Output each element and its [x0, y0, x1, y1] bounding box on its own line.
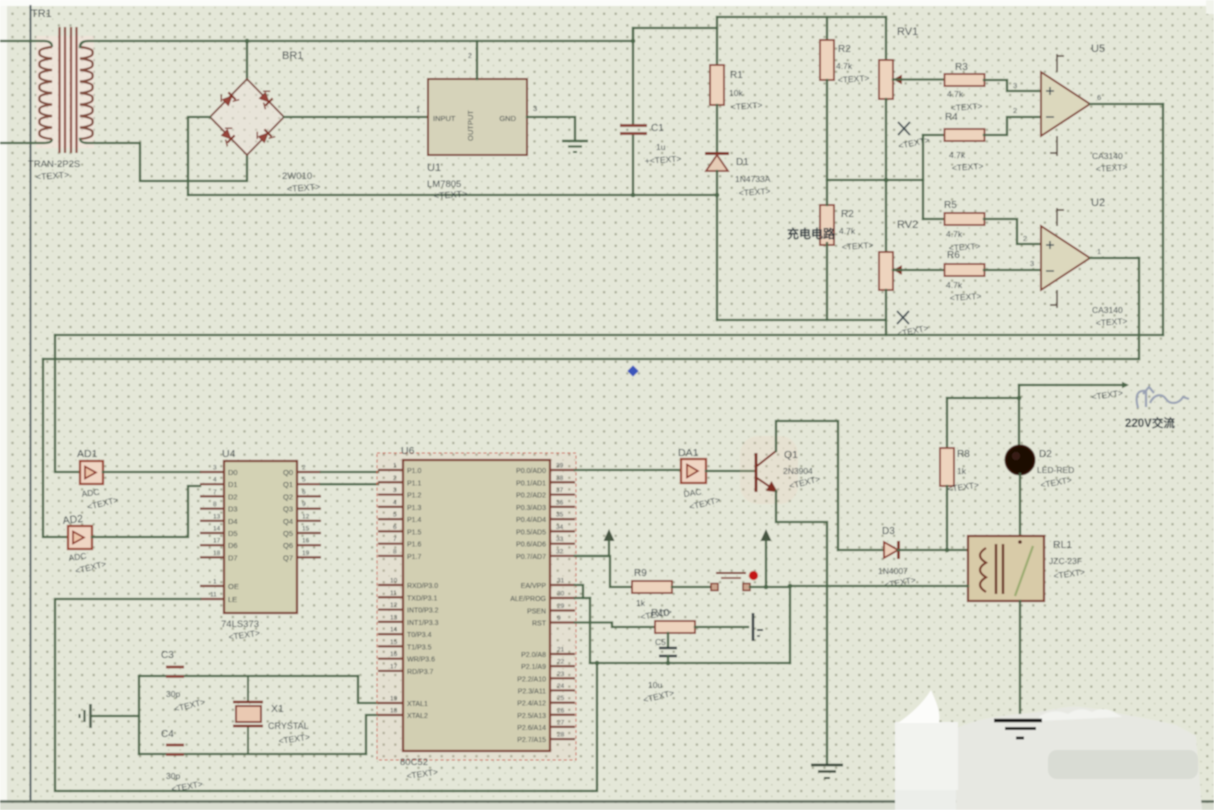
svg-text:R2: R2 — [838, 44, 851, 55]
svg-text:31: 31 — [557, 578, 565, 585]
svg-text:P2.6/A14: P2.6/A14 — [517, 725, 546, 732]
U6 pin 30 ALE/PROG — [550, 597, 575, 599]
wire loop left vertical — [589, 598, 591, 663]
wire — [188, 117, 210, 195]
junction — [1017, 396, 1022, 401]
svg-text:2: 2 — [1013, 106, 1017, 115]
svg-text:P2.2/A10: P2.2/A10 — [517, 676, 546, 683]
U6 pin 22 P2.1/A9 — [550, 665, 575, 667]
wire RST to R10 — [575, 623, 655, 628]
svg-text:T0/P3.4: T0/P3.4 — [407, 632, 432, 639]
U6 pin 5 P1.4 — [378, 518, 403, 520]
wire R8 bottom — [946, 486, 948, 550]
wire bus1 to AD1 — [55, 335, 80, 472]
U6 pin 7 P1.6 — [378, 543, 403, 545]
junction — [666, 661, 671, 666]
node relay coil top — [967, 549, 969, 551]
wire RV2 bottom — [885, 290, 887, 335]
op-amp U2 — [1041, 226, 1090, 290]
wire R4 to U5- — [984, 117, 1041, 135]
U6 pin 10 RXD/P3.0 — [378, 584, 403, 586]
svg-text:1: 1 — [1097, 247, 1101, 256]
U6 pin 25 P2.4/A12 — [550, 701, 575, 703]
svg-text:4.7k: 4.7k — [947, 89, 964, 99]
resistor R2 lower — [820, 205, 834, 245]
wire U4 Q0 to U6 P1.0 — [321, 471, 378, 473]
svg-text:21: 21 — [557, 647, 565, 654]
svg-text:R3: R3 — [955, 62, 968, 73]
wire — [838, 549, 884, 551]
svg-text:EA/VPP: EA/VPP — [521, 583, 547, 590]
wire relay to ground — [1019, 601, 1021, 718]
wire R10 right — [695, 626, 748, 628]
svg-text:1: 1 — [213, 579, 217, 586]
svg-text:JZC-23F: JZC-23F — [1049, 556, 1082, 566]
svg-text:C5: C5 — [655, 637, 666, 647]
wire — [826, 180, 828, 205]
ADC buffer AD2 — [68, 526, 92, 549]
wire divider tap — [827, 179, 923, 181]
resistor R5 — [945, 213, 985, 225]
svg-text:18: 18 — [213, 550, 221, 557]
wire U5 output — [1090, 103, 1163, 105]
svg-text:5: 5 — [302, 477, 306, 484]
svg-text:D3: D3 — [228, 505, 238, 514]
wire — [632, 135, 634, 195]
wire U1 gnd pin — [527, 117, 575, 141]
svg-text:10u: 10u — [648, 680, 662, 690]
U6 pin 6 P1.5 — [378, 530, 403, 532]
svg-text:P0.4/AD4: P0.4/AD4 — [516, 517, 546, 524]
wire — [923, 218, 945, 220]
potentiometer RV1 — [879, 60, 893, 99]
U6 pin 28 P2.7/A15 — [550, 738, 575, 740]
svg-text:7: 7 — [393, 536, 397, 543]
svg-text:GND: GND — [499, 114, 516, 123]
svg-text:P2.4/A12: P2.4/A12 — [517, 701, 546, 708]
svg-text:R1: R1 — [730, 70, 743, 81]
svg-text:4.7k: 4.7k — [839, 226, 856, 236]
wire R5 to U2+ — [984, 219, 1041, 244]
wire crystal loop top — [139, 675, 358, 677]
U4 pin D7 — [200, 556, 224, 558]
svg-text:16: 16 — [390, 651, 398, 658]
U6 pin 36 P0.3/AD3 — [550, 506, 575, 508]
left margin strip — [0, 0, 7, 810]
U6 pin 37 P0.2/AD2 — [550, 493, 575, 495]
svg-text:XTAL2: XTAL2 — [407, 713, 428, 720]
wire LE loop to bottom rail — [55, 599, 597, 791]
power arrow at button — [761, 529, 772, 541]
ADC buffer AD1 — [80, 461, 103, 484]
svg-text:P0.2/AD2: P0.2/AD2 — [516, 493, 546, 500]
U6 pin 24 P2.3/A11 — [550, 689, 575, 691]
svg-text:P2.0/A8: P2.0/A8 — [521, 652, 546, 659]
wire crystal loop left — [138, 676, 140, 754]
wire R6 to U2- — [984, 269, 1041, 271]
op-amp U5 — [1041, 72, 1090, 136]
svg-text:1k: 1k — [957, 466, 967, 476]
svg-text:D1: D1 — [228, 480, 238, 489]
svg-text:AD2: AD2 — [62, 513, 84, 527]
svg-text:R6: R6 — [947, 250, 960, 261]
svg-text:D3: D3 — [882, 526, 895, 537]
svg-text:RV1: RV1 — [897, 26, 918, 38]
svg-text:充电电路: 充电电路 — [787, 226, 836, 241]
svg-text:Q0: Q0 — [283, 468, 293, 477]
svg-text:7: 7 — [213, 489, 217, 496]
U4 pin Q4 — [297, 520, 321, 522]
svg-text:C4: C4 — [161, 729, 174, 740]
svg-text:C3: C3 — [161, 650, 174, 661]
svg-text:17: 17 — [390, 663, 398, 670]
wire U1 output pin — [476, 41, 478, 79]
wire — [885, 99, 887, 252]
svg-text:30p: 30p — [166, 689, 180, 699]
svg-text:13: 13 — [390, 614, 398, 621]
svg-text:5: 5 — [393, 512, 397, 519]
svg-text:PSEN: PSEN — [527, 609, 546, 616]
svg-text:LM7805: LM7805 — [427, 179, 461, 190]
svg-text:P1.7: P1.7 — [407, 554, 422, 561]
svg-text:80C52: 80C52 — [400, 757, 428, 768]
svg-text:U2: U2 — [1091, 197, 1105, 209]
U4 pin Q5 — [297, 532, 321, 534]
svg-text:C1: C1 — [651, 123, 664, 134]
junction — [945, 548, 950, 553]
wire — [80, 41, 247, 80]
U4 pin D6 — [200, 544, 224, 546]
wire AD2 out to U4 D1 — [92, 486, 200, 537]
U6 pin 34 P0.5/AD5 — [550, 530, 575, 532]
svg-text:3: 3 — [213, 465, 217, 472]
svg-text:P1.0: P1.0 — [407, 468, 422, 475]
U6 pin 17 RD/P3.7 — [378, 670, 403, 672]
svg-text:RD/P3.7: RD/P3.7 — [407, 669, 434, 676]
wire P0.0 to DA1 — [575, 470, 681, 471]
svg-text:2: 2 — [302, 465, 306, 472]
svg-text:22: 22 — [557, 659, 565, 666]
DAC buffer DA1 — [681, 459, 706, 483]
sheet border bottom line — [0, 800, 1214, 802]
svg-text:19: 19 — [302, 550, 310, 557]
svg-text:P1.3: P1.3 — [407, 505, 422, 512]
wire R3 to U5+ — [984, 80, 1041, 91]
svg-text:P1.6: P1.6 — [407, 542, 422, 549]
U6 pin 38 P0.1/AD1 — [550, 481, 575, 483]
wire R9 to U6 — [575, 556, 632, 587]
wire EA stair — [575, 585, 583, 598]
svg-text:1: 1 — [416, 105, 420, 114]
wire crystal loop bottom — [139, 753, 366, 755]
svg-text:P2.3/A11: P2.3/A11 — [518, 688, 546, 695]
U6 pin 19 XTAL1 — [378, 702, 403, 704]
svg-text:12: 12 — [390, 602, 398, 609]
U4 pin D3 — [200, 508, 224, 510]
U6 pin 18 XTAL2 — [378, 714, 403, 716]
svg-text:P0.6/AD6: P0.6/AD6 — [516, 542, 546, 549]
wire U2 output — [1090, 257, 1139, 259]
U6 pin 1 P1.0 — [378, 469, 403, 471]
svg-text:4: 4 — [213, 477, 217, 484]
svg-text:P1.1: P1.1 — [407, 480, 422, 487]
junction — [595, 661, 600, 666]
wire top rail — [247, 40, 633, 42]
svg-text:15: 15 — [390, 639, 398, 646]
svg-text:Q7: Q7 — [283, 553, 293, 562]
U6 pin 39 P0.0/AD0 — [550, 469, 575, 471]
svg-text:Q5: Q5 — [283, 529, 293, 538]
svg-text:2: 2 — [468, 53, 472, 60]
wire R4/R5 join — [922, 135, 924, 219]
wire bus1 — [55, 334, 1163, 336]
U4 pin D0 — [200, 471, 224, 473]
wire — [716, 171, 718, 320]
wire 220V feed — [1019, 384, 1122, 386]
U6 pin 33 P0.6/AD6 — [550, 543, 575, 545]
wire U4 Q1 to U6 P1.1 — [321, 483, 378, 485]
svg-text:26: 26 — [557, 707, 565, 714]
wire bus2 to AD2 — [43, 359, 68, 537]
svg-text:D7: D7 — [228, 553, 238, 562]
resistor R4 — [945, 129, 985, 141]
svg-text:39: 39 — [556, 463, 564, 470]
junction — [788, 584, 793, 589]
U4 pin D4 — [200, 520, 224, 522]
transistor Q1 — [740, 436, 798, 504]
wire — [716, 17, 718, 65]
svg-text:2: 2 — [393, 475, 397, 482]
svg-text:ALE/PROG: ALE/PROG — [510, 596, 546, 603]
wire arrow to button net — [765, 541, 767, 587]
junction — [245, 39, 250, 44]
resistor R8 — [940, 448, 954, 486]
svg-text:R10: R10 — [651, 608, 670, 619]
sheet border left line — [30, 5, 32, 802]
svg-text:RV2: RV2 — [897, 219, 918, 231]
wire — [284, 116, 428, 118]
svg-text:4: 4 — [393, 499, 397, 506]
svg-text:CA3140: CA3140 — [1092, 305, 1123, 315]
svg-text:TRAN-2P2S: TRAN-2P2S — [28, 159, 80, 170]
wire — [633, 28, 717, 41]
AC sine symbol — [1137, 387, 1189, 408]
node X marker upper — [898, 122, 910, 135]
U6 pin 2 P1.1 — [378, 481, 403, 483]
MCU U6 80C52 — [403, 460, 550, 751]
svg-text:D2: D2 — [1039, 449, 1052, 460]
svg-text:AD1: AD1 — [77, 448, 98, 460]
svg-text:INPUT: INPUT — [433, 114, 456, 123]
svg-text:35: 35 — [556, 512, 564, 519]
voltage regulator U1 — [428, 79, 527, 155]
svg-text:R2: R2 — [841, 209, 854, 220]
svg-text:11: 11 — [210, 592, 217, 599]
svg-text:6: 6 — [393, 524, 397, 531]
wire RV1 wiper to R3 — [893, 78, 945, 80]
svg-text:P2.7/A15: P2.7/A15 — [517, 737, 546, 744]
svg-text:34: 34 — [556, 524, 564, 531]
svg-text:14: 14 — [390, 627, 398, 634]
svg-text:9: 9 — [302, 501, 306, 508]
svg-text:1k: 1k — [636, 598, 646, 608]
potentiometer RV2 — [879, 252, 893, 290]
wire — [826, 80, 828, 180]
wire — [667, 633, 669, 647]
svg-text:DA1: DA1 — [678, 447, 699, 459]
wire GND rail — [188, 194, 717, 196]
wire top rail right — [717, 16, 886, 18]
wire ALE stair — [575, 597, 590, 599]
svg-text:220V交流: 220V交流 — [1125, 416, 1175, 430]
wire — [826, 243, 828, 320]
svg-text:14: 14 — [213, 526, 221, 533]
U6 pin 4 P1.3 — [378, 506, 403, 508]
U6 pin 21 P2.0/A8 — [550, 653, 575, 655]
svg-text:RL1: RL1 — [1053, 539, 1072, 551]
U4 pin Q2 — [297, 495, 321, 497]
svg-text:4.7k: 4.7k — [949, 150, 966, 160]
svg-text:R9: R9 — [634, 568, 647, 579]
ground symbol below relay — [994, 721, 1042, 739]
junction — [715, 193, 720, 198]
wire bottom rail of divider — [717, 319, 886, 321]
U6 pin 26 P2.5/A13 — [550, 714, 575, 716]
svg-text:BR1: BR1 — [282, 50, 303, 62]
svg-text:P0.3/AD3: P0.3/AD3 — [516, 505, 546, 512]
top margin strip — [0, 0, 1214, 6]
svg-text:4.7k: 4.7k — [946, 280, 963, 290]
diode D3 — [884, 542, 898, 558]
svg-text:X1: X1 — [271, 703, 284, 715]
svg-text:D2: D2 — [228, 492, 238, 501]
U4 pin Q3 — [297, 508, 321, 510]
U6 pin 14 T0/P3.4 — [378, 633, 403, 635]
svg-text:23: 23 — [557, 671, 565, 678]
svg-text:17: 17 — [213, 538, 221, 545]
wire RV2 wiper to R6 — [893, 269, 945, 271]
U6 pin 15 T1/P3.5 — [378, 645, 403, 647]
power arrow at U6 — [604, 529, 615, 541]
svg-text:15: 15 — [302, 526, 310, 533]
svg-text:CRYSTAL: CRYSTAL — [268, 721, 309, 731]
svg-text:12: 12 — [302, 513, 310, 520]
wire gnd to crystal loop — [92, 715, 139, 717]
U4 pin Q0 — [297, 471, 321, 473]
svg-text:RXD/P3.0: RXD/P3.0 — [407, 583, 438, 590]
wire — [885, 17, 887, 60]
svg-text:4.7k: 4.7k — [946, 229, 963, 239]
svg-text:Q3: Q3 — [283, 505, 293, 514]
svg-text:XTAL1: XTAL1 — [407, 701, 428, 708]
svg-text:4.7k: 4.7k — [836, 61, 853, 71]
svg-text:6: 6 — [302, 489, 306, 496]
svg-text:37: 37 — [556, 487, 564, 494]
svg-text:32: 32 — [556, 548, 564, 555]
svg-text:18: 18 — [390, 708, 398, 715]
U6 pin 11 TXD/P3.1 — [378, 596, 403, 598]
resistor R9 — [632, 581, 672, 593]
capacitor C3 — [166, 667, 184, 677]
svg-text:P1.4: P1.4 — [407, 517, 422, 524]
svg-text:3: 3 — [1013, 81, 1017, 90]
capacitor at RST net — [753, 613, 763, 641]
U6 pin 8 P1.7 — [378, 555, 403, 557]
wire DA1 to Q1 base — [706, 470, 756, 472]
svg-text:29: 29 — [557, 603, 565, 610]
wire R8 top to LED line — [947, 397, 1019, 399]
wire — [923, 134, 945, 136]
svg-text:36: 36 — [556, 499, 564, 506]
svg-text:1N4733A: 1N4733A — [735, 174, 771, 184]
svg-text:10: 10 — [390, 578, 398, 585]
svg-text:RST: RST — [532, 621, 547, 628]
svg-text:Q2: Q2 — [283, 492, 293, 501]
svg-text:Q1: Q1 — [283, 480, 293, 489]
wire power arrow to P0.7 — [575, 541, 609, 556]
wire down to loop bottom — [789, 587, 791, 663]
blue junction diamond — [627, 365, 638, 376]
svg-text:D4: D4 — [228, 517, 238, 526]
svg-text:R5: R5 — [944, 200, 957, 211]
svg-text:LE: LE — [228, 595, 237, 604]
svg-text:25: 25 — [557, 695, 565, 702]
svg-text:OE: OE — [228, 582, 239, 591]
svg-text:P0.5/AD5: P0.5/AD5 — [516, 529, 546, 536]
wire to LED D2 — [1018, 385, 1020, 446]
wire D2 to relay — [1019, 474, 1021, 536]
svg-text:U4: U4 — [222, 448, 236, 460]
svg-text:3: 3 — [533, 104, 537, 113]
junction — [764, 585, 769, 590]
svg-text:R8: R8 — [957, 449, 970, 460]
watermark blob — [895, 690, 1202, 810]
wire Q1 emitter to ground — [776, 491, 827, 765]
wire — [826, 17, 828, 40]
svg-text:27: 27 — [557, 719, 565, 726]
svg-text:19: 19 — [390, 696, 398, 703]
capacitor C4 — [166, 745, 184, 755]
svg-text:2W010: 2W010 — [282, 171, 312, 182]
node X marker lower — [897, 311, 909, 324]
U4 pin Q7 — [297, 556, 321, 558]
svg-text:1: 1 — [393, 463, 397, 470]
U4 pin D2 — [200, 495, 224, 497]
svg-text:1N4007: 1N4007 — [878, 566, 908, 576]
U4 pin LE — [200, 598, 224, 600]
U4 pin D5 — [200, 532, 224, 534]
wire D3 to relay coil — [898, 549, 968, 551]
junction — [884, 178, 889, 183]
LED D2 — [1006, 446, 1035, 475]
svg-text:16: 16 — [302, 538, 310, 545]
svg-text:30: 30 — [557, 591, 565, 598]
wire button right — [750, 586, 790, 588]
U6 pin 12 INT0/P3.2 — [378, 608, 403, 610]
junction — [631, 193, 636, 198]
svg-text:R4: R4 — [945, 112, 958, 123]
wire — [667, 656, 669, 663]
svg-text:U6: U6 — [401, 445, 415, 457]
U6 pin 35 P0.4/AD4 — [550, 518, 575, 520]
U6 pin 31 EA/VPP — [550, 584, 575, 586]
svg-text:LED-RED: LED-RED — [1037, 465, 1074, 475]
U6 pin 16 WR/P3.6 — [378, 658, 403, 660]
U6 pin 29 PSEN — [550, 609, 575, 611]
U4 pin OE — [200, 585, 224, 587]
push button — [716, 573, 746, 578]
ground symbol left of crystal — [80, 704, 91, 728]
